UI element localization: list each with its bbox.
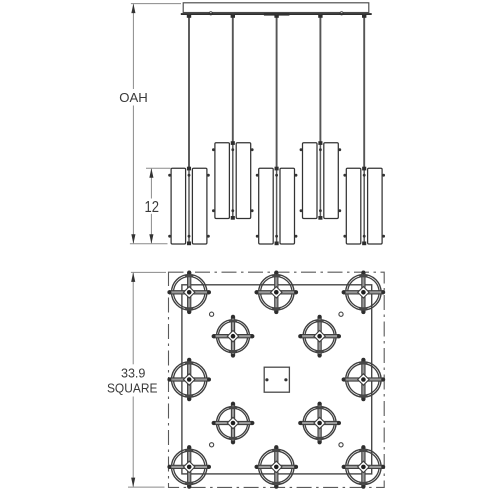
OAH arrow up xyxy=(131,4,135,14)
plan screw D xyxy=(339,443,343,447)
square-dim bottom extension line xyxy=(128,486,165,488)
rod fitting 3 xyxy=(274,15,278,18)
pendant unit top-mid (plan) xyxy=(254,271,298,315)
pendant unit mid-right (plan) xyxy=(342,358,386,402)
OAH dimension line lower xyxy=(132,106,134,244)
hanger rod 2 xyxy=(232,15,234,143)
junction box screw right xyxy=(284,378,287,381)
pendant 2 (elevation) xyxy=(212,141,254,220)
pendant 5 (elevation) xyxy=(343,167,385,246)
rod fitting 4 xyxy=(318,15,322,18)
plan screw A xyxy=(210,312,214,316)
svg-text:33.9: 33.9 xyxy=(121,366,146,381)
pendant unit inner top-right (plan) xyxy=(298,315,341,358)
plan screw C xyxy=(210,443,214,447)
pendant unit bottom-right (plan) xyxy=(342,445,386,489)
junction box screw left xyxy=(265,378,268,381)
square-dim line upper xyxy=(132,273,134,364)
svg-text:OAH: OAH xyxy=(119,90,148,105)
canopy bar (elevation) xyxy=(183,3,369,13)
hanger rod 3 xyxy=(276,15,278,168)
shared bottom extension line xyxy=(130,243,168,245)
12-dim arrow up xyxy=(149,168,153,178)
12-dim line upper xyxy=(150,169,152,199)
OAH dimension line upper xyxy=(132,4,134,89)
canopy center mount xyxy=(264,13,290,16)
pendant unit inner top-left (plan) xyxy=(212,315,255,358)
rod fitting 5 xyxy=(362,15,366,18)
pendant 4 (elevation) xyxy=(300,141,342,220)
pendant unit inner bottom-left (plan) xyxy=(212,402,255,445)
pendant unit bottom-mid (plan) xyxy=(254,445,298,489)
pendant unit inner bottom-right (plan) xyxy=(298,402,341,445)
hanger rod 4 xyxy=(319,15,321,143)
square-dim line lower xyxy=(132,397,134,487)
OAH top extension line xyxy=(131,3,181,5)
pendant 3 (elevation) xyxy=(256,167,298,246)
center junction box xyxy=(264,367,289,392)
12-dim line lower xyxy=(150,214,152,243)
rod fitting 1 xyxy=(187,15,191,18)
plan screw B xyxy=(339,312,343,316)
pendant unit top-left (plan) xyxy=(167,271,211,315)
pendant unit mid-left (plan) xyxy=(167,358,211,402)
12-dim arrow down xyxy=(149,234,153,244)
svg-text:SQUARE: SQUARE xyxy=(107,381,158,396)
square-dim arrow down xyxy=(131,478,135,488)
pendant unit bottom-left (plan) xyxy=(167,445,211,489)
plan frame (solid square) xyxy=(182,285,372,474)
hanger rod 1 xyxy=(188,15,190,168)
square-dim arrow up xyxy=(131,272,135,282)
canopy bottom plate xyxy=(181,13,372,15)
canopy knob right xyxy=(340,12,343,15)
12-dim top extension line xyxy=(146,167,171,169)
rod fitting 2 xyxy=(231,15,235,18)
canopy knob left xyxy=(209,12,212,15)
square-dim top extension line xyxy=(131,271,166,273)
OAH arrow down xyxy=(131,234,135,244)
plan outer boundary (dash-dot square) xyxy=(169,272,385,487)
hanger rod 5 xyxy=(363,15,365,168)
svg-text:12: 12 xyxy=(145,199,160,216)
pendant unit top-right (plan) xyxy=(342,271,386,315)
pendant 1 (elevation) xyxy=(168,167,210,246)
